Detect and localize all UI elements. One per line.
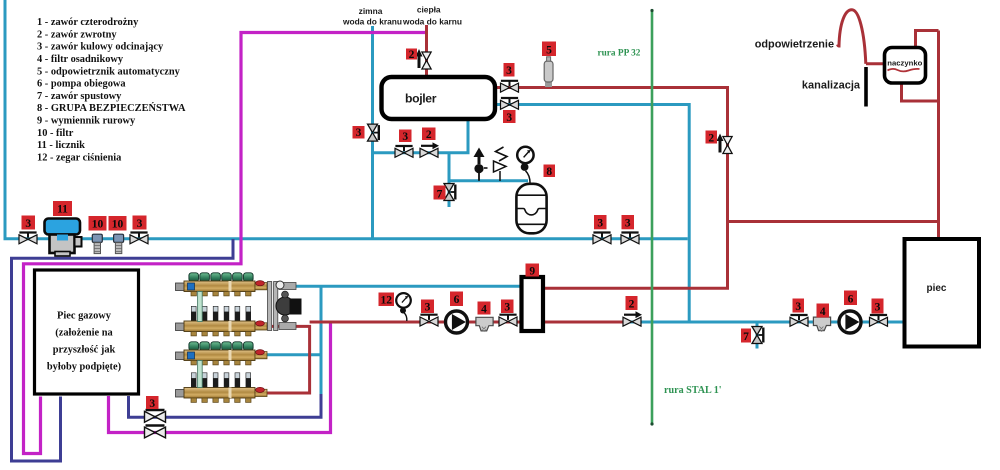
svg-text:3: 3 bbox=[506, 65, 512, 77]
svg-text:2: 2 bbox=[426, 129, 432, 141]
svg-text:6 - pompa obiegowa: 6 - pompa obiegowa bbox=[37, 79, 126, 90]
svg-text:10 - filtr: 10 - filtr bbox=[37, 128, 74, 139]
svg-text:3: 3 bbox=[402, 131, 408, 143]
svg-text:rura STAL 1': rura STAL 1' bbox=[664, 385, 722, 396]
svg-text:8 - GRUPA BEZPIECZEŃSTWA: 8 - GRUPA BEZPIECZEŃSTWA bbox=[37, 102, 186, 114]
svg-text:3: 3 bbox=[597, 218, 603, 230]
svg-text:10: 10 bbox=[92, 219, 104, 231]
svg-text:ciepła: ciepła bbox=[417, 5, 441, 15]
svg-text:11 - licznik: 11 - licznik bbox=[37, 140, 85, 151]
svg-text:kanalizacja: kanalizacja bbox=[802, 80, 861, 92]
svg-text:4 - filtr osadnikowy: 4 - filtr osadnikowy bbox=[37, 54, 124, 65]
svg-text:5: 5 bbox=[546, 45, 552, 57]
svg-text:woda do karnu: woda do karnu bbox=[402, 17, 462, 27]
svg-text:3: 3 bbox=[875, 302, 881, 314]
svg-text:7: 7 bbox=[743, 331, 749, 343]
svg-text:9: 9 bbox=[529, 266, 535, 278]
svg-text:7: 7 bbox=[437, 189, 443, 201]
svg-text:zimna: zimna bbox=[359, 6, 383, 16]
svg-text:6: 6 bbox=[848, 294, 854, 306]
svg-text:3: 3 bbox=[625, 218, 631, 230]
svg-text:3: 3 bbox=[795, 301, 801, 313]
svg-text:2: 2 bbox=[629, 299, 635, 311]
svg-text:bojler: bojler bbox=[405, 92, 437, 106]
svg-text:8: 8 bbox=[546, 166, 552, 178]
svg-text:3: 3 bbox=[137, 218, 143, 230]
svg-text:4: 4 bbox=[481, 304, 487, 316]
svg-text:odpowietrzenie: odpowietrzenie bbox=[755, 39, 834, 51]
svg-text:(założenie na: (założenie na bbox=[55, 328, 113, 339]
svg-text:12 - zegar ciśnienia: 12 - zegar ciśnienia bbox=[37, 152, 122, 163]
svg-text:rura PP 32: rura PP 32 bbox=[598, 48, 641, 58]
svg-text:piec: piec bbox=[926, 283, 946, 294]
svg-text:3 - zawór kulowy odcinający: 3 - zawór kulowy odcinający bbox=[37, 42, 164, 53]
svg-text:2: 2 bbox=[409, 49, 415, 61]
svg-text:przyszłość jak: przyszłość jak bbox=[53, 345, 116, 356]
svg-text:3: 3 bbox=[506, 112, 512, 124]
svg-text:2 - zawór zwrotny: 2 - zawór zwrotny bbox=[37, 29, 117, 40]
svg-text:12: 12 bbox=[380, 295, 392, 307]
svg-text:byłoby podpięte): byłoby podpięte) bbox=[47, 362, 121, 373]
svg-text:3: 3 bbox=[504, 302, 510, 314]
svg-text:Piec gazowy: Piec gazowy bbox=[57, 311, 112, 322]
svg-text:10: 10 bbox=[112, 219, 124, 231]
svg-text:1 - zawór czterodrożny: 1 - zawór czterodrożny bbox=[37, 17, 139, 28]
svg-text:3: 3 bbox=[25, 218, 31, 230]
svg-text:3: 3 bbox=[425, 302, 431, 314]
svg-text:9 - wymiennik rurowy: 9 - wymiennik rurowy bbox=[37, 116, 136, 127]
svg-text:4: 4 bbox=[820, 306, 826, 318]
svg-text:7 - zawór spustowy: 7 - zawór spustowy bbox=[37, 91, 122, 102]
svg-text:11: 11 bbox=[57, 204, 68, 216]
svg-text:3: 3 bbox=[149, 398, 155, 410]
svg-text:naczynko: naczynko bbox=[887, 58, 922, 67]
svg-text:woda do kranu: woda do kranu bbox=[342, 17, 402, 27]
svg-text:5 - odpowietrznik automatyczny: 5 - odpowietrznik automatyczny bbox=[37, 66, 181, 77]
svg-text:3: 3 bbox=[356, 127, 362, 139]
svg-text:6: 6 bbox=[454, 294, 460, 306]
svg-text:2: 2 bbox=[708, 133, 714, 145]
